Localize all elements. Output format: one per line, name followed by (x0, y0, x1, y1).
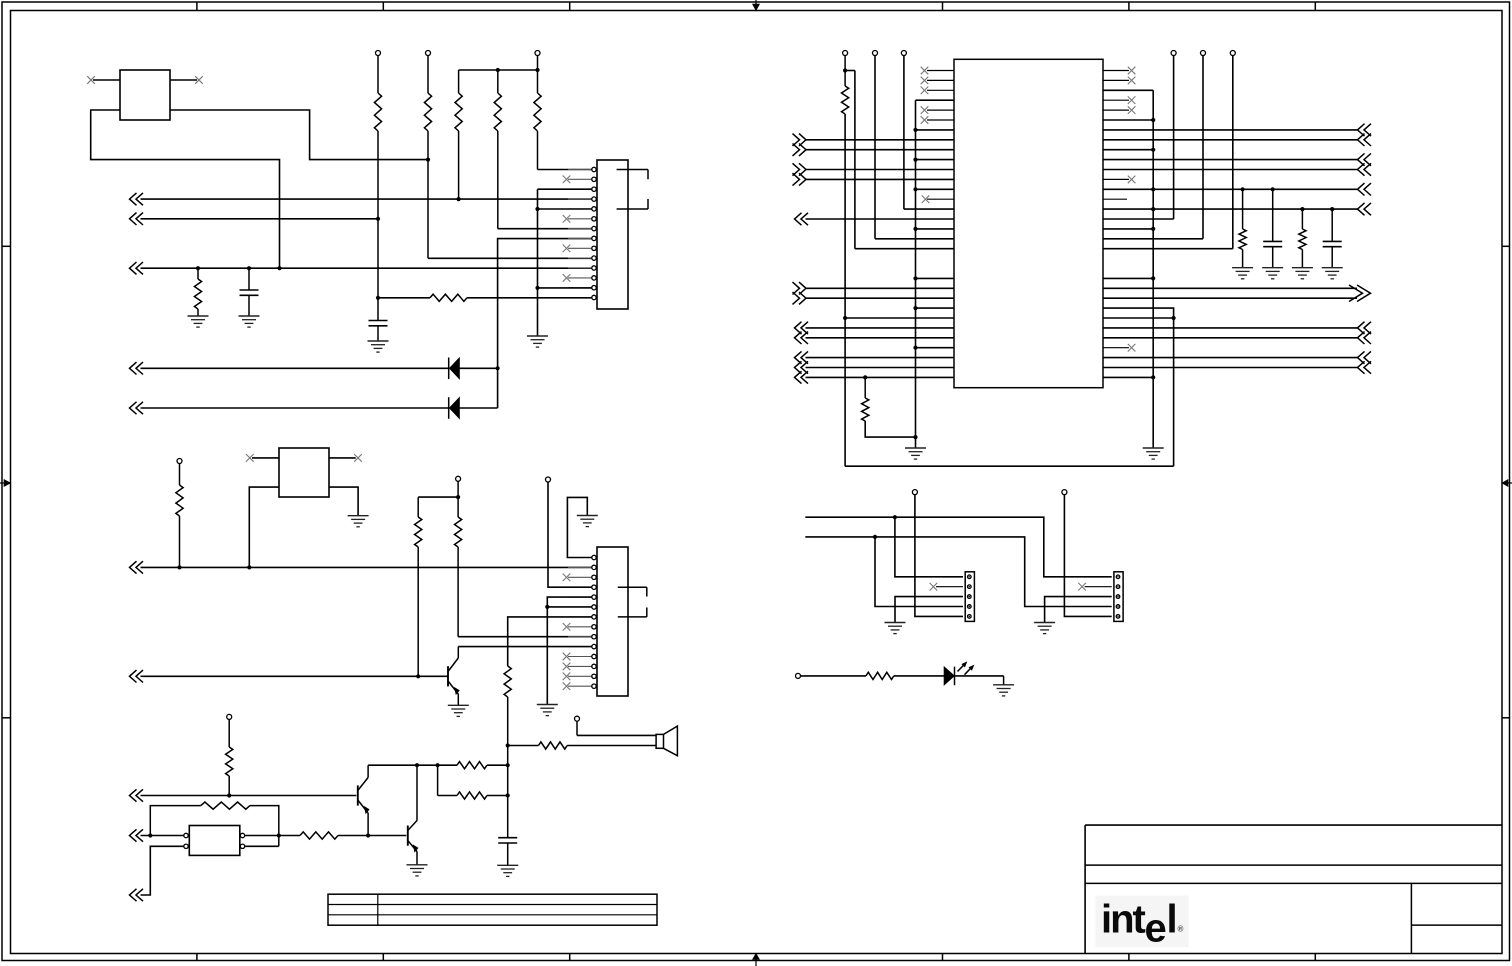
input arrow net6 (130, 561, 137, 573)
LED D3 (944, 667, 955, 686)
junction (506, 793, 510, 797)
terminal VCC15 (1062, 490, 1067, 495)
pin J2.12 no-connect (563, 663, 571, 671)
pin J1.12 no-connect (563, 274, 571, 282)
resistor R23 (801, 675, 867, 677)
wire to J3 pin4 (875, 537, 963, 607)
wire VCC14 to J3 pin5 (915, 495, 963, 617)
connector J1 key bracket (617, 169, 648, 171)
pin Y2.1 no-connect (252, 457, 279, 459)
wire Y1 left to node (91, 110, 280, 268)
wire J2 pin7 to R16 (508, 617, 592, 666)
wire net11 (805, 517, 1111, 577)
resistor R5 (537, 56, 539, 94)
connector J1 pin circles (592, 167, 596, 171)
terminal VCC14 (912, 490, 917, 495)
wire R3 R4 R5 top bus (459, 69, 538, 71)
capacitor C5 (507, 796, 509, 838)
pin J2.8 no-connect (563, 623, 571, 631)
ground (1292, 267, 1313, 269)
feedback resistor R21 (150, 806, 201, 836)
wire U2 pin2 to arrow net10 (141, 846, 184, 895)
wire U1 right ground net (1103, 89, 1153, 91)
header J3 pins (968, 575, 972, 579)
bus in arrows p30 p31 p32 (795, 351, 802, 363)
svg-text:e: e (1145, 907, 1166, 951)
junction (545, 605, 549, 609)
wire branch to R20 (437, 765, 439, 795)
wire J4 pin3 to ground (1045, 597, 1112, 623)
terminal VCC2 (426, 51, 431, 56)
title block frame (1084, 825, 1086, 953)
pin Y1.2 no-connect (170, 79, 197, 81)
revision table (328, 894, 657, 925)
bus in arrow p15 right (1358, 203, 1365, 215)
resistor R10 (864, 377, 866, 398)
wire R15 to J2 pin9 (458, 636, 592, 638)
resistor R19 (457, 762, 487, 769)
capacitor C4 (1331, 209, 1333, 241)
wire VCC8 to U1 pin18 right (1202, 56, 1204, 239)
opto U2 (189, 826, 240, 856)
wire VCC7 to U1 pin16 (1173, 56, 1175, 220)
pin Y1.1 no-connect (93, 79, 120, 81)
resistor R12 (1301, 209, 1303, 229)
ground (1034, 622, 1055, 624)
junction (1241, 187, 1245, 191)
junction (843, 68, 847, 72)
junction (376, 296, 380, 300)
terminal VCC8 (1201, 51, 1206, 56)
diode D1 (448, 358, 450, 380)
ground (993, 684, 1014, 686)
wire LED cathode to ground (1003, 676, 1005, 685)
resistor R20 (457, 792, 487, 799)
junction (277, 833, 281, 837)
capacitor C1 (369, 320, 388, 322)
border center marker left (0, 482, 11, 484)
title block row line 1 (1085, 864, 1502, 866)
resistor R22 (300, 832, 338, 839)
capacitor C3 (1272, 189, 1274, 241)
terminal VCC13 (227, 714, 232, 719)
terminal VCC3 (535, 51, 540, 56)
transistor Q2 (357, 785, 359, 805)
bus in arrows p30 p31 right (1358, 351, 1365, 363)
junction (416, 674, 420, 678)
IC U1 left no-connect stubs (927, 70, 954, 72)
speaker LS1 (656, 734, 663, 748)
border center marker bottom (755, 954, 757, 966)
title block row line 2 (1085, 882, 1502, 884)
svg-text:int: int (1101, 898, 1146, 942)
ground (905, 447, 926, 449)
resistor R18 (228, 719, 230, 747)
ground (885, 622, 906, 624)
wire Y1 right to R2 (170, 110, 428, 160)
diode D2 (448, 397, 450, 419)
resistor R2 (427, 56, 429, 94)
resistor R14 (417, 497, 419, 517)
wire R5 to J1 pin1 (538, 169, 592, 171)
junction (148, 833, 152, 837)
wire U2 pin3 line (245, 835, 300, 837)
pin J2.14 no-connect (563, 682, 571, 690)
title block cell line (1411, 924, 1502, 926)
junction (1300, 207, 1304, 211)
junction (436, 763, 440, 767)
wire U1 pin26 right (1103, 317, 1174, 319)
connector J1 pin stubs (568, 169, 592, 171)
wire U1 pin26 left (845, 317, 954, 319)
IC U1 right no-connect stubs (1103, 70, 1129, 72)
junction (247, 565, 251, 569)
wire J2 pin4 (548, 482, 592, 587)
wire net12 (805, 537, 1111, 607)
junction (457, 197, 461, 201)
wire U1 pin25 jog (1103, 308, 1174, 318)
pin J1.6 no-connect (563, 215, 571, 223)
junction (1330, 207, 1334, 211)
wire R16 node down (507, 746, 509, 796)
ground (188, 315, 209, 317)
wire Y2 left (249, 487, 279, 567)
resistor R11 (1242, 189, 1244, 229)
transistor Q3 (407, 826, 409, 846)
connector J2 pin stubs (568, 557, 592, 559)
bus in arrows p27 p28 (795, 322, 802, 334)
LED D3 emission arrows (958, 664, 965, 671)
wire loop right vertical (1173, 318, 1175, 466)
terminal VCC12 (546, 477, 551, 482)
resistor R1 (377, 56, 379, 94)
junction (535, 68, 539, 72)
ground (527, 335, 548, 337)
header J4 pins (1116, 575, 1120, 579)
junction (177, 565, 181, 569)
wire VCC6 to U1 pin15 (903, 56, 905, 210)
pin J3.2 no-connect (936, 586, 963, 588)
svg-text:l: l (1167, 898, 1176, 942)
wire J1 pin3/5/13 ground net (538, 188, 592, 190)
pin Y2.2 no-connect (329, 457, 356, 459)
pin J4.2 no-connect (1085, 586, 1112, 588)
junction (227, 793, 231, 797)
header J4 (1114, 572, 1123, 622)
bus out arrows p8 p9 (799, 134, 806, 146)
resistor R16 (504, 666, 511, 697)
wire branch (845, 70, 855, 72)
terminal VCC7 (1171, 51, 1176, 56)
junction (535, 286, 539, 290)
wire R4 to J1 pin7 (498, 228, 592, 230)
pin J2.13 no-connect (563, 673, 571, 681)
pin U1 right nc marks (1128, 67, 1136, 75)
junction (247, 266, 251, 270)
IC U1 (954, 59, 1103, 387)
ground (239, 315, 260, 317)
terminal SPK+ (575, 716, 580, 721)
terminal VCC4 (843, 51, 848, 56)
opto U2 pin circles (184, 833, 188, 837)
junction (277, 266, 281, 270)
bus out big arrow p23 p24 right (1103, 287, 1357, 289)
pin U1 left nc marks (921, 67, 929, 75)
ground (348, 515, 369, 517)
bus in arrow p13 right (1358, 183, 1365, 195)
border center marker top (755, 0, 757, 11)
bus in arrow p16 (795, 213, 802, 225)
svg-text:®: ® (1178, 925, 1184, 934)
input arrow net4 (130, 362, 137, 374)
terminal VCC11 (456, 476, 461, 481)
junction (376, 217, 380, 221)
resistor R7 (378, 297, 430, 299)
junction (426, 158, 430, 162)
border center marker right (1502, 482, 1512, 484)
connector J2 pin circles (592, 555, 596, 559)
wire to J3 pin1 (895, 517, 963, 577)
junction (535, 207, 539, 211)
junction (496, 366, 500, 370)
pin J2.3 no-connect (563, 574, 571, 582)
connector J2 (597, 547, 628, 696)
terminal VCC9 (1230, 51, 1235, 56)
title block divider (1410, 883, 1412, 953)
ground (577, 515, 598, 517)
terminal VCC5 (873, 51, 878, 56)
input arrow net5 (130, 402, 137, 414)
resistor R17 (508, 745, 539, 747)
junction (1271, 187, 1275, 191)
ground (407, 864, 428, 866)
wire J2 pin5 pin6 ground net (547, 597, 592, 704)
wire Y2 right to ground (329, 487, 358, 516)
wire J1 pin8 to diodes (498, 239, 592, 408)
terminal VCC10 (177, 459, 182, 464)
border zone ticks (196, 2, 198, 11)
input arrow net2 (130, 213, 137, 225)
pin J1.9 no-connect (563, 245, 571, 253)
pin J1.2 no-connect (563, 176, 571, 184)
input arrow net9 (130, 829, 137, 841)
junctions right ground net (1151, 118, 1155, 122)
junction (415, 763, 419, 767)
terminal VCC6 (901, 51, 906, 56)
resistor R3 (458, 70, 460, 93)
input arrow net8 (130, 789, 137, 801)
junction (366, 833, 370, 837)
ground (1322, 267, 1343, 269)
wire R14 top (418, 496, 458, 498)
wire J3 pin3 to ground (895, 597, 963, 623)
wire Q2 collector bus (368, 764, 457, 766)
resistor R4 (497, 70, 499, 93)
crystal Y2 (279, 448, 329, 497)
terminal VCC1 (376, 51, 381, 56)
junction (506, 743, 510, 747)
junction (843, 316, 847, 320)
input arrow net3 (130, 262, 137, 274)
connector J2 key bracket (618, 586, 647, 588)
ground (497, 864, 518, 866)
resistor R13 (179, 464, 181, 486)
transistor Q1 (447, 666, 449, 686)
crystal Y1 (120, 70, 170, 120)
terminal LED input (796, 673, 801, 678)
bus in arrows p27 p28 right (1358, 322, 1365, 334)
bus out arrows p11 p12 (799, 163, 806, 175)
wire speaker top (576, 721, 578, 735)
wire R2 to J1 pin10 (428, 257, 592, 259)
wire VCC9 to U1 pin19 right (1232, 56, 1234, 249)
junction (456, 495, 460, 499)
wire U1 bottom loop (845, 465, 1174, 467)
junction (873, 535, 877, 539)
junction (196, 266, 200, 270)
junction (893, 515, 897, 519)
wire VCC15 to J4 pin5 (1064, 495, 1111, 617)
wire J2 pin1 to ground (567, 497, 591, 557)
ground (368, 340, 389, 342)
header J3 (965, 572, 974, 622)
wire U2 pin4 (245, 845, 279, 847)
bus out arrows p23 p24 (799, 282, 806, 294)
resistor R6 (197, 268, 199, 279)
ground (1143, 447, 1164, 449)
input arrow net1 (130, 193, 137, 205)
intel logo (1096, 896, 1189, 948)
junction (1172, 316, 1176, 320)
ground (537, 704, 558, 706)
ground (1262, 267, 1283, 269)
wire VCC5 to U1 pin18 (874, 56, 876, 239)
ground (448, 704, 469, 706)
junction (506, 763, 510, 767)
input arrow net7 (130, 670, 137, 682)
junction (496, 68, 500, 72)
bus in arrows p10 p11 right (1358, 153, 1365, 165)
bus in arrows p7 p8 right (1358, 124, 1365, 136)
junctions left ground net (913, 128, 917, 132)
pin J2.11 no-connect (563, 653, 571, 661)
wire U1 left ground net (916, 99, 955, 101)
capacitor C2 (248, 268, 250, 290)
resistor R9 (844, 56, 846, 87)
ground (1232, 267, 1253, 269)
wire Q1 collector to J2 pin10 (458, 646, 592, 648)
connector J1 (597, 160, 628, 309)
junction (863, 375, 867, 379)
resistor R15 (457, 481, 459, 517)
